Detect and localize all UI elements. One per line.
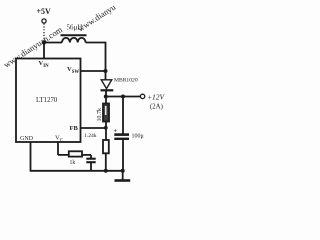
svg-text:56μH: 56μH	[67, 24, 83, 32]
junction dot R2/rail	[104, 169, 108, 173]
capacitor C1 100u	[122, 97, 124, 134]
svg-text:10.7k: 10.7k	[97, 108, 103, 122]
node +12V output terminal	[140, 94, 144, 98]
svg-text:+12V: +12V	[147, 93, 166, 102]
junction dot cap branch	[121, 95, 125, 99]
svg-text:100μ: 100μ	[132, 134, 144, 140]
wire R1 to FB node	[105, 122, 107, 141]
svg-text:LT1270: LT1270	[36, 97, 58, 104]
wire +5V terminal to junction (dotted)	[43, 24, 45, 40]
wire output rail	[106, 96, 141, 98]
svg-text:FB: FB	[70, 125, 79, 132]
wire GND pin drop	[30, 143, 32, 172]
svg-text:(2A): (2A)	[150, 104, 163, 111]
wire inductor to switch-node corner	[86, 42, 106, 44]
ground	[122, 171, 124, 180]
junction dot cap/rail	[121, 169, 125, 173]
wire ground rail	[30, 170, 124, 172]
resistor R3 1k	[69, 151, 82, 156]
capacitor C2 comp	[86, 158, 95, 160]
svg-text:GND: GND	[20, 136, 34, 142]
junction dot diode/output	[104, 95, 108, 99]
wire VC pin drop	[57, 143, 59, 155]
junction dot switch node	[104, 69, 108, 73]
wire VSW pin to switch node	[81, 70, 106, 72]
svg-text:+5V: +5V	[37, 7, 52, 16]
wire VIN drop	[43, 43, 45, 59]
junction dot input node	[42, 40, 46, 44]
junction dot FB node	[104, 126, 108, 130]
wire switch-node vertical	[105, 42, 107, 80]
wire FB pin	[81, 127, 106, 129]
svg-text:1k: 1k	[70, 160, 76, 166]
diode D1 MBR1020	[101, 80, 111, 89]
op IC U1 LT1270 box	[16, 59, 81, 143]
wire input rail to inductor	[44, 42, 62, 44]
svg-text:1.24k: 1.24k	[84, 133, 97, 139]
wire R3 to C2	[82, 154, 91, 156]
svg-text:MBR1020: MBR1020	[114, 78, 138, 84]
resistor R1 10.7k	[105, 97, 107, 104]
